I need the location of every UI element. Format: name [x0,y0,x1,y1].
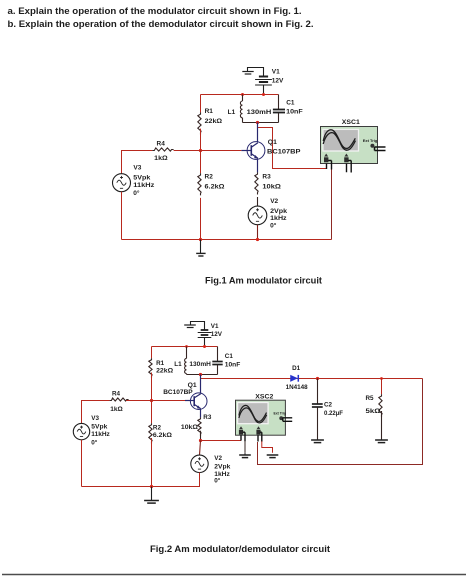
wire: collector tap to scope A+ [258,123,327,169]
svg-text:0°: 0° [91,439,98,447]
ground under C2 [311,440,324,443]
node: collector junction (circuit1) [256,121,259,124]
svg-text:12V: 12V [272,77,284,84]
svg-text:C1: C1 [286,100,295,107]
source V3 5Vpk 11kHz (circuit1) [113,165,156,197]
node: rail/battery junction (circuit2) [203,345,206,348]
wire: V3 bottom to rail (circuit2) [81,440,83,487]
resistor R3 10k (circuit2) [181,414,212,441]
svg-text:22kΩ: 22kΩ [156,367,173,374]
node: rail/R2 junction (circuit2) [150,485,153,488]
resistor R2 6.2k (circuit1) [198,151,225,240]
svg-text:V3: V3 [91,415,99,422]
wire: base wire (circuit1) [201,150,242,152]
node: R5 top junction [380,377,383,380]
svg-text:a. Explain the operation of th: a. Explain the operation of the modulato… [8,6,302,16]
caption Fig.2 [150,544,330,554]
node: collector junction (circuit2) [199,373,202,376]
svg-text:L1: L1 [228,109,236,116]
transistor Q1 BC107BP (circuit1) [241,123,301,173]
svg-text:V2: V2 [214,455,222,462]
svg-text:R2: R2 [153,424,162,431]
inductor L1 130mH (circuit2) [174,347,211,375]
svg-text:10nF: 10nF [225,362,241,369]
battery V1 12V (circuit1) [255,68,284,95]
svg-text:XSC1: XSC1 [342,119,360,126]
ground under scope B- [267,455,279,458]
wire: tank bottom (circuit2) [187,374,218,376]
svg-text:1N4148: 1N4148 [286,384,308,391]
svg-text:Ext Trig: Ext Trig [274,412,287,416]
svg-text:L1: L1 [174,361,182,368]
resistor R4 1k (circuit2) [110,390,152,413]
svg-text:11kHz: 11kHz [133,182,155,189]
node: rail/tank junction [241,93,244,96]
resistor R2 6.2k (circuit2) [149,401,172,487]
svg-text:Q1: Q1 [188,382,197,389]
resistor R5 5k [366,379,383,440]
node: rail/ground junction (circuit1) [199,238,202,241]
battery V1 12V (circuit2) [197,322,223,347]
wire: base wire (circuit2) [152,400,186,402]
question text line a [8,6,302,16]
source V3 5Vpk 11kHz (circuit2) [73,415,110,447]
ground near V1 (circuit1 top) [242,68,255,75]
node: rail/battery junction [262,93,265,96]
svg-text:130mH: 130mH [247,109,272,116]
wire: junction to scope A+ (circuit2) [201,440,242,442]
capacitor C2 0.22uF [312,379,343,440]
svg-text:Fig.2 Am modulator/demodulator: Fig.2 Am modulator/demodulator circuit [150,544,330,554]
resistor R1 22k (circuit2) [149,347,173,401]
svg-text:BC107BP: BC107BP [163,389,193,396]
svg-text:R1: R1 [156,360,165,367]
svg-text:V3: V3 [133,165,141,172]
svg-text:0°: 0° [270,222,277,230]
wire: scope A- to rail [331,170,333,240]
bottom rule [2,574,466,576]
svg-text:BC107BP: BC107BP [267,149,301,156]
svg-text:10nF: 10nF [286,109,303,116]
svg-text:5Vpk: 5Vpk [133,175,150,182]
ground under R5 [375,440,388,443]
svg-text:2Vpk: 2Vpk [214,463,231,470]
svg-text:R5: R5 [366,395,375,402]
svg-text:0°: 0° [214,477,221,485]
svg-text:R3: R3 [203,414,212,421]
svg-text:V1: V1 [272,69,280,76]
svg-text:0°: 0° [133,189,140,197]
wire: tank bottom (circuit1) [243,122,279,124]
svg-text:Q1: Q1 [268,139,277,146]
svg-text:1kHz: 1kHz [270,215,287,222]
oscilloscope XSC2 [236,393,293,441]
ground under scope A- [239,453,251,458]
svg-text:1kΩ: 1kΩ [154,155,168,162]
node: rail/V2 junction (circuit1) [256,238,259,241]
svg-text:R4: R4 [112,390,121,397]
svg-text:5Vpk: 5Vpk [91,424,108,431]
svg-text:10kΩ: 10kΩ [181,424,198,431]
svg-text:10kΩ: 10kΩ [262,184,281,191]
resistor R4 1k (circuit1) [152,141,200,163]
node: base junction (circuit2) [150,399,153,402]
diode D1 1N4148 [286,365,308,391]
ground near V1 (circuit2 top) [184,322,196,328]
wire: circuit1 top rail [201,94,279,96]
svg-text:5kΩ: 5kΩ [366,408,381,415]
question text line b [8,19,314,29]
capacitor C1 10nF (circuit2) [212,347,240,375]
wire: V3 top to R4 (circuit1) [122,151,153,174]
svg-text:0.22µF: 0.22µF [324,410,343,417]
svg-text:V2: V2 [270,198,278,205]
svg-text:11kHz: 11kHz [91,431,110,438]
svg-text:R2: R2 [205,173,214,180]
ground at circuit2 bottom rail [144,487,159,504]
wire: V3 bottom to rail (circuit1) [121,192,123,240]
svg-text:Ext Trig: Ext Trig [363,139,378,143]
svg-text:12V: 12V [211,331,223,338]
svg-text:R3: R3 [262,174,271,181]
wire: scope A- to ground (circuit2) [244,441,246,453]
source V2 2Vpk 1kHz (circuit2) [191,441,231,485]
svg-text:C1: C1 [225,353,234,360]
node: C2 top junction [316,377,319,380]
wire: right loop to scope B+ [258,379,423,465]
node: base junction (circuit1) [199,149,202,152]
resistor R1 22k (circuit1) [198,95,222,151]
wire: circuit1 bottom rail [122,239,332,241]
svg-text:b. Explain the operation of th: b. Explain the operation of the demodula… [8,19,314,29]
svg-text:6.2kΩ: 6.2kΩ [153,432,172,439]
wire: scope B- to ground (circuit2) [262,441,273,453]
transistor Q1 BC107BP (circuit2) [163,375,207,418]
oscilloscope XSC1 [321,119,386,172]
ground at circuit1 bottom rail [196,240,205,257]
svg-text:22kΩ: 22kΩ [205,118,223,125]
svg-text:1kΩ: 1kΩ [110,406,123,413]
node: R3/V2/scope junction (circuit2) [199,439,202,442]
svg-text:D1: D1 [292,365,301,372]
svg-text:Fig.1 Am modulator circuit: Fig.1 Am modulator circuit [205,276,322,286]
svg-text:V1: V1 [211,323,219,330]
wire: circuit2 bottom rail [82,473,200,487]
resistor R3 10k (circuit1) [255,172,281,206]
inductor L1 130mH (circuit1) [228,95,272,123]
capacitor C1 10nF (circuit1) [273,95,303,123]
wire: collector to D1/C2/R5 rail [201,375,423,379]
node: rail/tank junction (circuit2) [185,345,188,348]
source V2 2Vpk 1kHz (circuit1) [248,198,287,239]
svg-text:R1: R1 [205,108,214,115]
caption Fig.1 [205,276,322,286]
wire: circuit2 top rail [152,346,218,348]
svg-text:130mH: 130mH [189,361,211,368]
svg-text:6.2kΩ: 6.2kΩ [205,184,225,191]
wire: V3 top to R4 (circuit2) [82,401,110,424]
svg-text:2Vpk: 2Vpk [270,208,287,215]
svg-text:R4: R4 [157,141,166,148]
svg-text:XSC2: XSC2 [255,393,273,400]
svg-text:C2: C2 [324,402,333,409]
